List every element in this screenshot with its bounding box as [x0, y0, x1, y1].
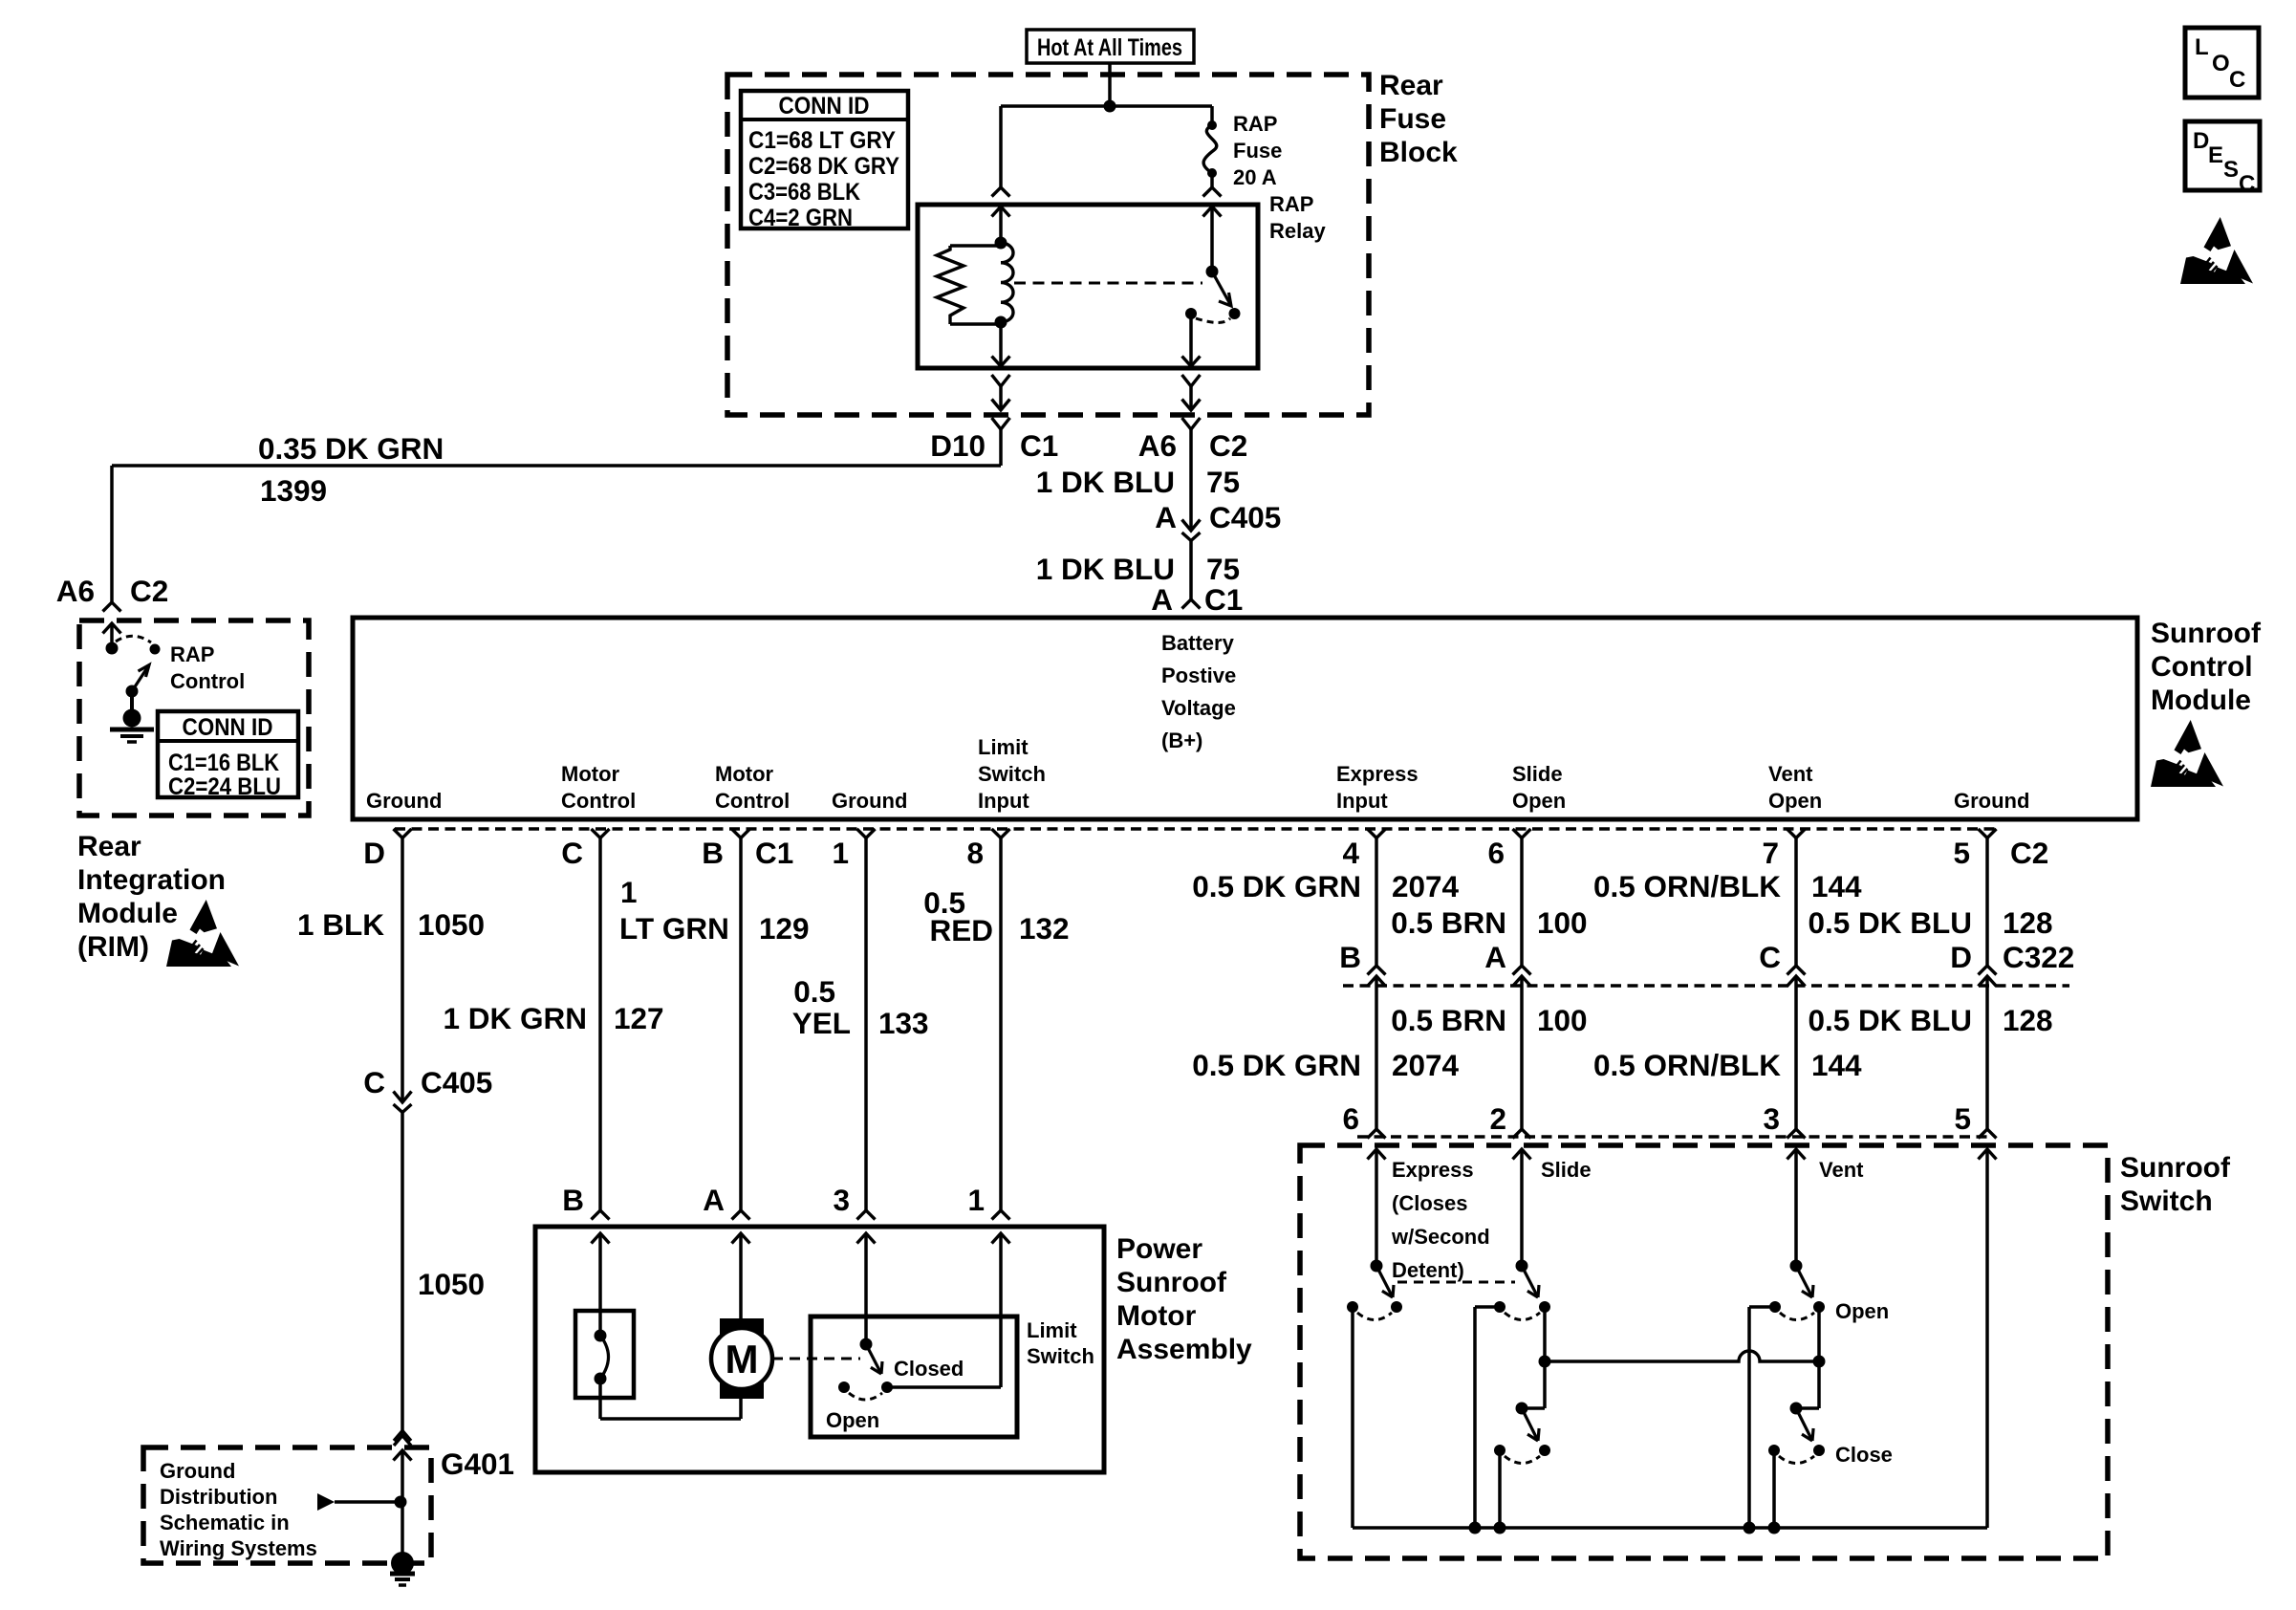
svg-text:0.5 BRN: 0.5 BRN: [1391, 1003, 1506, 1037]
svg-text:Open: Open: [1512, 789, 1566, 813]
svg-text:Schematic in: Schematic in: [160, 1511, 290, 1534]
svg-text:2074: 2074: [1392, 869, 1460, 903]
svg-text:(Closes: (Closes: [1392, 1191, 1467, 1215]
svg-text:C2: C2: [1209, 428, 1247, 463]
svg-text:Sunroof: Sunroof: [2120, 1152, 2231, 1184]
svg-text:Fuse: Fuse: [1233, 139, 1282, 163]
svg-text:O: O: [2212, 51, 2230, 76]
svg-text:C1: C1: [1204, 582, 1243, 617]
svg-text:132: 132: [1019, 911, 1070, 946]
svg-text:144: 144: [1811, 869, 1862, 903]
svg-text:0.5: 0.5: [793, 974, 835, 1009]
svg-text:RAP: RAP: [1269, 192, 1313, 216]
svg-text:C: C: [561, 836, 583, 870]
svg-text:Open: Open: [826, 1408, 879, 1432]
svg-text:1: 1: [832, 836, 849, 870]
svg-text:0.5 DK GRN: 0.5 DK GRN: [1192, 869, 1361, 903]
svg-text:Distribution: Distribution: [160, 1485, 277, 1509]
svg-text:w/Second: w/Second: [1391, 1225, 1490, 1249]
svg-text:D: D: [2193, 128, 2209, 154]
svg-text:1050: 1050: [418, 907, 485, 942]
svg-text:LT GRN: LT GRN: [619, 911, 729, 946]
svg-text:Postive: Postive: [1161, 664, 1236, 687]
svg-text:Ground: Ground: [366, 789, 442, 813]
svg-text:4: 4: [1342, 836, 1359, 870]
svg-text:Slide: Slide: [1541, 1158, 1592, 1182]
svg-text:0.5 DK GRN: 0.5 DK GRN: [1192, 1048, 1361, 1082]
svg-text:Motor: Motor: [715, 762, 774, 786]
svg-text:D: D: [1950, 940, 1972, 974]
svg-text:0.5 ORN/BLK: 0.5 ORN/BLK: [1593, 1048, 1781, 1082]
svg-text:C3=68 BLK: C3=68 BLK: [748, 179, 860, 206]
svg-text:G401: G401: [441, 1447, 514, 1481]
svg-text:CONN ID: CONN ID: [779, 93, 870, 120]
svg-text:C405: C405: [421, 1065, 492, 1099]
svg-text:75: 75: [1206, 465, 1240, 499]
svg-text:Module: Module: [77, 898, 178, 929]
svg-text:Control: Control: [715, 789, 790, 813]
svg-text:0.5 BRN: 0.5 BRN: [1391, 905, 1506, 940]
svg-text:RAP: RAP: [1233, 112, 1277, 136]
svg-text:Sunroof: Sunroof: [2151, 618, 2262, 649]
svg-text:Limit: Limit: [1027, 1318, 1077, 1342]
svg-text:B: B: [702, 836, 724, 870]
svg-text:Relay: Relay: [1269, 219, 1326, 243]
svg-text:Ground: Ground: [1954, 789, 2029, 813]
svg-text:Hot At All Times: Hot At All Times: [1037, 34, 1182, 61]
svg-text:(RIM): (RIM): [77, 931, 149, 963]
svg-text:0.5 DK BLU: 0.5 DK BLU: [1808, 1003, 1972, 1037]
svg-text:Block: Block: [1379, 137, 1458, 168]
svg-text:2: 2: [1489, 1101, 1506, 1136]
svg-text:6: 6: [1487, 836, 1505, 870]
svg-text:C: C: [2239, 171, 2255, 197]
svg-text:100: 100: [1537, 905, 1588, 940]
svg-text:1 DK GRN: 1 DK GRN: [443, 1001, 587, 1035]
svg-text:0.5 ORN/BLK: 0.5 ORN/BLK: [1593, 869, 1781, 903]
svg-text:133: 133: [878, 1006, 929, 1040]
svg-text:Vent: Vent: [1819, 1158, 1864, 1182]
svg-text:Switch: Switch: [2120, 1186, 2213, 1217]
svg-text:100: 100: [1537, 1003, 1588, 1037]
svg-text:Battery: Battery: [1161, 631, 1235, 655]
svg-text:Slide: Slide: [1512, 762, 1563, 786]
svg-text:C1: C1: [1020, 428, 1058, 463]
svg-text:Motor: Motor: [561, 762, 620, 786]
svg-text:75: 75: [1206, 552, 1240, 586]
svg-text:A: A: [1151, 582, 1173, 617]
svg-text:Switch: Switch: [1027, 1344, 1094, 1368]
svg-text:Motor: Motor: [1116, 1300, 1197, 1332]
svg-text:1399: 1399: [260, 473, 327, 508]
svg-text:128: 128: [2003, 1003, 2053, 1037]
svg-text:D10: D10: [930, 428, 986, 463]
svg-text:YEL: YEL: [792, 1006, 851, 1040]
svg-text:144: 144: [1811, 1048, 1862, 1082]
svg-text:A6: A6: [56, 574, 95, 608]
svg-text:20 A: 20 A: [1233, 165, 1277, 189]
svg-text:Express: Express: [1392, 1158, 1474, 1182]
svg-text:C1=16 BLK: C1=16 BLK: [168, 750, 279, 776]
svg-text:0.35 DK GRN: 0.35 DK GRN: [258, 431, 444, 466]
svg-text:Closed: Closed: [894, 1357, 964, 1381]
svg-text:Rear: Rear: [1379, 70, 1443, 101]
svg-text:Ground: Ground: [160, 1459, 235, 1483]
svg-text:3: 3: [1763, 1101, 1780, 1136]
svg-text:Module: Module: [2151, 685, 2251, 716]
svg-text:Control: Control: [561, 789, 636, 813]
svg-text:C2=68 DK GRY: C2=68 DK GRY: [748, 153, 899, 180]
svg-text:7: 7: [1762, 836, 1779, 870]
svg-text:L: L: [2195, 34, 2209, 60]
svg-text:Rear: Rear: [77, 831, 141, 862]
svg-text:1050: 1050: [418, 1267, 485, 1301]
svg-text:RED: RED: [929, 913, 993, 947]
svg-text:5: 5: [1953, 836, 1970, 870]
svg-text:129: 129: [759, 911, 810, 946]
svg-text:Assembly: Assembly: [1116, 1334, 1252, 1365]
svg-text:Control: Control: [2151, 651, 2253, 683]
svg-text:Input: Input: [1336, 789, 1388, 813]
svg-text:B: B: [562, 1183, 584, 1217]
svg-text:Input: Input: [978, 789, 1029, 813]
svg-text:Switch: Switch: [978, 762, 1046, 786]
svg-text:C2: C2: [130, 574, 168, 608]
svg-text:1 DK BLU: 1 DK BLU: [1036, 465, 1175, 499]
svg-text:Open: Open: [1835, 1299, 1889, 1323]
svg-text:C4=2 GRN: C4=2 GRN: [748, 205, 853, 231]
svg-text:A6: A6: [1138, 428, 1177, 463]
svg-text:Sunroof: Sunroof: [1116, 1267, 1227, 1298]
svg-text:2074: 2074: [1392, 1048, 1460, 1082]
svg-text:0.5 DK BLU: 0.5 DK BLU: [1808, 905, 1972, 940]
svg-text:A: A: [703, 1183, 725, 1217]
svg-text:C: C: [2229, 67, 2245, 93]
svg-text:Ground: Ground: [832, 789, 907, 813]
svg-text:6: 6: [1342, 1101, 1359, 1136]
svg-text:1: 1: [967, 1183, 985, 1217]
svg-text:Open: Open: [1768, 789, 1822, 813]
svg-text:E: E: [2208, 142, 2223, 168]
svg-text:Voltage: Voltage: [1161, 696, 1236, 720]
svg-text:RAP: RAP: [170, 642, 214, 666]
svg-text:Control: Control: [170, 669, 245, 693]
svg-text:C2=24 BLU: C2=24 BLU: [168, 773, 281, 800]
svg-text:C1: C1: [755, 836, 793, 870]
svg-text:5: 5: [1954, 1101, 1971, 1136]
svg-text:CONN ID: CONN ID: [183, 714, 273, 741]
svg-text:Fuse: Fuse: [1379, 103, 1446, 135]
svg-text:Vent: Vent: [1768, 762, 1813, 786]
svg-text:128: 128: [2003, 905, 2053, 940]
svg-text:C322: C322: [2003, 940, 2074, 974]
svg-text:8: 8: [966, 836, 984, 870]
svg-text:3: 3: [833, 1183, 850, 1217]
svg-text:Integration: Integration: [77, 864, 226, 896]
svg-text:A: A: [1155, 500, 1177, 534]
svg-text:C: C: [1759, 940, 1781, 974]
svg-text:1 DK BLU: 1 DK BLU: [1036, 552, 1175, 586]
svg-text:1 BLK: 1 BLK: [297, 907, 384, 942]
svg-text:Express: Express: [1336, 762, 1419, 786]
svg-text:C405: C405: [1209, 500, 1281, 534]
svg-text:Wiring Systems: Wiring Systems: [160, 1536, 317, 1560]
svg-text:Power: Power: [1116, 1233, 1202, 1265]
svg-text:B: B: [1339, 940, 1361, 974]
svg-text:Close: Close: [1835, 1443, 1893, 1467]
svg-text:C: C: [363, 1065, 385, 1099]
svg-text:A: A: [1484, 940, 1506, 974]
svg-text:D: D: [363, 836, 385, 870]
svg-text:(B+): (B+): [1161, 729, 1202, 752]
svg-text:127: 127: [614, 1001, 664, 1035]
svg-text:Limit: Limit: [978, 735, 1029, 759]
svg-text:C2: C2: [2010, 836, 2048, 870]
svg-text:M: M: [726, 1337, 759, 1382]
svg-text:C1=68 LT GRY: C1=68 LT GRY: [748, 127, 896, 154]
svg-text:1: 1: [620, 875, 638, 909]
svg-text:Detent): Detent): [1392, 1258, 1464, 1282]
svg-text:S: S: [2223, 157, 2239, 183]
